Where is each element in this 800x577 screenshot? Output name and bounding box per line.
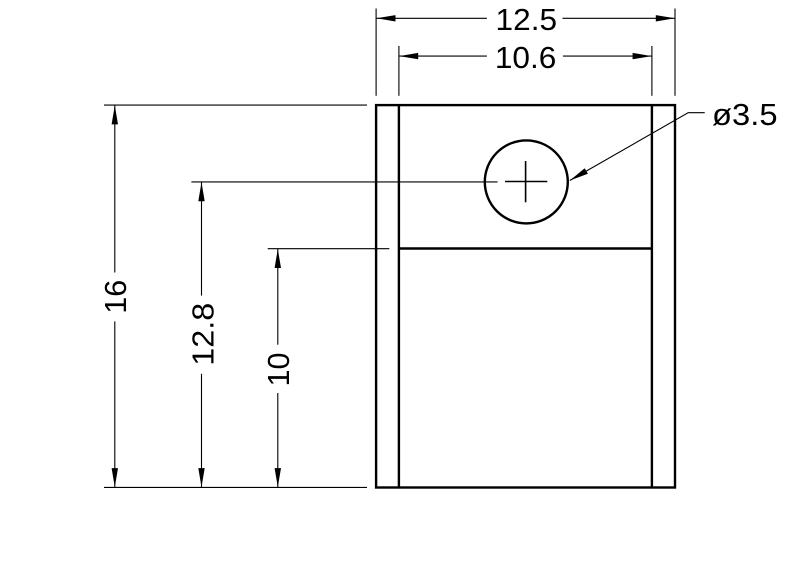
svg-text:12.8: 12.8: [186, 303, 221, 366]
svg-text:10: 10: [261, 353, 296, 387]
dimension 12.5: [376, 9, 675, 96]
part inner right edge line: [651, 105, 653, 487]
hole circle: [485, 140, 568, 223]
dimension 10.6: [399, 46, 652, 96]
part inner left edge line: [398, 105, 400, 487]
part internal horizontal line: [399, 247, 652, 249]
svg-text:ø3.5: ø3.5: [712, 97, 778, 132]
part outline rectangle: [376, 105, 675, 487]
leader line for hole diameter: [570, 113, 705, 181]
svg-text:10.6: 10.6: [495, 40, 557, 75]
dimension 10: [268, 249, 390, 487]
dimension 16: [104, 105, 367, 487]
dimension 12.8: [191, 182, 497, 487]
svg-text:16: 16: [98, 280, 133, 314]
leader arrowhead: [570, 168, 588, 180]
svg-text:12.5: 12.5: [496, 2, 558, 37]
hole center cross: [505, 161, 547, 202]
